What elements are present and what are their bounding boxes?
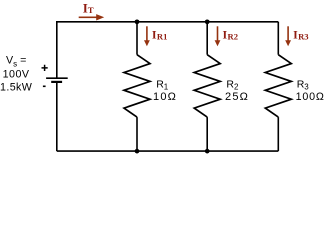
svg-text:R1: R1 [156, 79, 169, 92]
wire: branch 1 top stub [136, 22, 138, 55]
junction node: top of branch 2 [205, 19, 210, 24]
battery plus sign [42, 65, 48, 71]
current arrow IR1 (down) [144, 26, 150, 46]
current arrow IT (horizontal) [79, 14, 105, 20]
resistor R1 zigzag [124, 55, 150, 117]
wire: branch 3 (right side) top stub [277, 22, 279, 55]
label R1 value [153, 79, 177, 104]
svg-text:100Ω: 100Ω [296, 91, 325, 103]
svg-text:R3: R3 [298, 31, 309, 41]
junction node: bottom of branch 1 [135, 149, 140, 154]
label Vs = / 100V / 1.5kW [0, 55, 33, 94]
wire: bottom bus [57, 150, 278, 152]
wire: branch 1 bottom stub [136, 117, 138, 151]
svg-text:Vs =: Vs = [6, 55, 26, 69]
svg-text:T: T [88, 5, 94, 15]
svg-text:1.5kW: 1.5kW [0, 82, 33, 94]
current arrow IR3 (down) [285, 26, 291, 46]
svg-text:100V: 100V [3, 69, 30, 81]
label R3 value [296, 79, 325, 104]
label R2 value [225, 79, 249, 104]
svg-text:25Ω: 25Ω [225, 91, 249, 103]
wire: branch 2 top stub [206, 22, 208, 55]
svg-text:R2: R2 [228, 31, 239, 41]
wire: top bus [57, 21, 278, 23]
battery V1 long positive plate [46, 77, 68, 79]
battery V1 short negative plate [51, 81, 62, 83]
svg-text:R1: R1 [157, 31, 168, 41]
junction node: bottom of branch 2 [205, 149, 210, 154]
svg-text:R3: R3 [297, 79, 310, 92]
wire: branch 3 bottom stub [277, 117, 279, 151]
svg-text:10Ω: 10Ω [153, 91, 177, 103]
current arrow IR2 (down) [215, 26, 221, 46]
wire: left vertical lower (battery - to bottom-left corner) [56, 82, 58, 151]
wire: branch 2 bottom stub [206, 117, 208, 151]
resistor R3 zigzag [265, 55, 291, 117]
svg-text:R2: R2 [226, 79, 239, 92]
junction node: top of branch 1 [135, 19, 140, 24]
battery minus sign [43, 85, 46, 87]
resistor R2 zigzag [194, 55, 220, 117]
wire: left vertical upper (battery + to top-left corner) [56, 21, 58, 78]
